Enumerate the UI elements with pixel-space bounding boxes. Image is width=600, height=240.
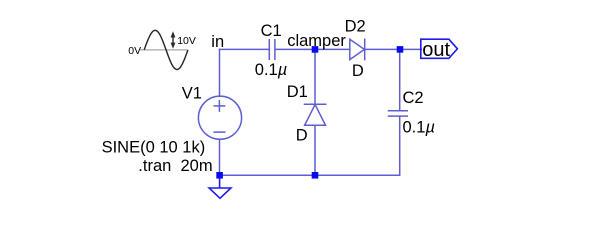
svg-text:out: out [422,39,450,61]
svg-text:0V: 0V [128,45,141,57]
svg-text:C1: C1 [261,22,282,40]
svg-text:clamper: clamper [287,32,346,50]
svg-text:SINE(0 10 1k): SINE(0 10 1k) [102,139,206,157]
svg-text:in: in [211,33,224,51]
svg-text:0.1µ: 0.1µ [403,118,435,136]
svg-text:D: D [296,127,308,145]
svg-text:D1: D1 [287,83,308,101]
svg-text:D: D [352,62,364,80]
svg-text:D2: D2 [345,17,366,35]
svg-text:10V: 10V [177,35,196,47]
svg-text:0.1µ: 0.1µ [255,61,287,79]
svg-text:C2: C2 [403,89,424,107]
svg-text:V1: V1 [182,85,202,103]
svg-text:.tran 20m: .tran 20m [138,157,212,175]
